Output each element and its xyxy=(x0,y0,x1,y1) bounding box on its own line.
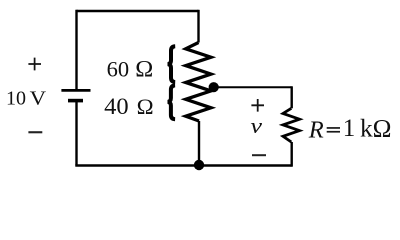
svg-text:v: v xyxy=(251,113,263,138)
wire: bottom rail xyxy=(75,164,291,167)
resistor R zigzag xyxy=(283,108,300,142)
brace for 60 ohm xyxy=(168,46,176,82)
svg-text:kΩ: kΩ xyxy=(360,113,392,142)
svg-text:Ω: Ω xyxy=(135,57,153,82)
node bottom junction dot xyxy=(194,160,204,170)
wire: middle branch top xyxy=(197,10,199,43)
label plus (v) xyxy=(251,99,264,112)
wire: top from left corner to middle branch xyxy=(77,10,199,12)
wire: left side lower (battery to bottom) xyxy=(75,101,77,166)
svg-text:1: 1 xyxy=(343,115,356,142)
resistor 60/40 ohm tapped zigzag xyxy=(186,43,211,122)
label minus (v) xyxy=(252,154,266,156)
brace for 40 ohm xyxy=(168,85,176,119)
svg-text:60: 60 xyxy=(107,57,130,82)
svg-text:V: V xyxy=(30,88,47,110)
wire: tap to right branch xyxy=(211,86,292,88)
wire: right branch top xyxy=(291,86,293,108)
svg-text:10: 10 xyxy=(6,88,26,110)
svg-text:Ω: Ω xyxy=(137,94,154,119)
node tap dot xyxy=(209,82,219,92)
wire: right branch bottom xyxy=(291,142,293,167)
label plus (source) xyxy=(28,58,41,71)
svg-text:R: R xyxy=(308,117,324,144)
battery V1 long plate (+) xyxy=(61,89,90,92)
battery V1 short plate (-) xyxy=(68,99,83,103)
svg-text:40: 40 xyxy=(104,94,129,119)
label minus (source) xyxy=(28,131,42,133)
wire: middle branch bottom xyxy=(198,121,200,166)
wire: left side upper (to battery) xyxy=(75,10,77,89)
